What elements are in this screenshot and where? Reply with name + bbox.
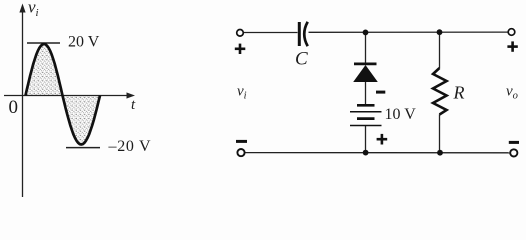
svg-text:0: 0 (9, 97, 19, 118)
svg-text:R: R (453, 83, 465, 103)
svg-text:20 V: 20 V (68, 33, 100, 50)
svg-text:C: C (295, 49, 308, 70)
svg-text:10 V: 10 V (385, 106, 417, 123)
svg-text:–20 V: –20 V (108, 138, 152, 155)
